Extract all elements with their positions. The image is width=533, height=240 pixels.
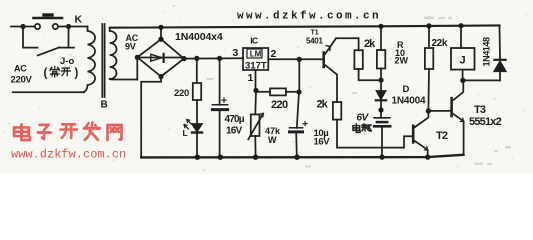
- svg-text:220: 220: [271, 99, 288, 111]
- wire: LM317 output to T1 base: [268, 58, 323, 60]
- svg-text:5551x2: 5551x2: [469, 116, 502, 128]
- transistor Q3: T3 base bar: [450, 98, 453, 116]
- wire: ground bottom rail: [141, 155, 463, 158]
- svg-text:1: 1: [248, 72, 254, 84]
- junction: 470u top: [217, 56, 222, 61]
- label 电瓶: [353, 124, 371, 132]
- junction: rail at R / R bottom node: [378, 24, 383, 83]
- T3 emitter with arrow: [453, 113, 464, 154]
- junction: node K: [66, 24, 71, 29]
- wire: T1 emitter to 2k: [336, 38, 359, 50]
- resistor R 10 2W: [377, 26, 385, 80]
- transistor Q1: T1 5401 base bar: [322, 53, 325, 67]
- label 6V: [357, 113, 370, 124]
- label AC 9V: [125, 33, 139, 52]
- label K: [75, 13, 83, 25]
- wire: bridge bottom DC- to ground: [141, 77, 161, 158]
- wire: LED to ground: [196, 133, 198, 158]
- junction: bridge bottom vertex: [158, 74, 163, 79]
- capacitor 470u 16V: [212, 58, 227, 109]
- svg-text:): ): [75, 68, 79, 80]
- svg-text:AC: AC: [14, 64, 27, 74]
- svg-text:2k: 2k: [364, 38, 376, 50]
- svg-text:16V: 16V: [226, 126, 243, 137]
- wire: secondary bottom lead: [110, 78, 138, 81]
- label 2k (emitter): [364, 38, 376, 50]
- wire: ADJ down to pot: [254, 91, 257, 115]
- watermark 电子开发网 (red): [14, 123, 121, 140]
- resistor 2k (T1 collector): [333, 102, 341, 120]
- wire: bridge top vertex to rail: [160, 27, 162, 39]
- label www.dzkfw.com.cn (top): [237, 11, 381, 23]
- switch K contacts: [35, 24, 58, 29]
- junction: rail at relay: [458, 23, 463, 28]
- svg-text:2: 2: [271, 48, 277, 60]
- label IC: [250, 36, 258, 46]
- svg-text:T2: T2: [436, 130, 448, 142]
- watermark www.dzkfw.com.cn (red): [11, 148, 126, 162]
- label 47k W: [265, 126, 281, 145]
- svg-text:1N4004: 1N4004: [392, 96, 426, 107]
- junction: relay bottom node: [460, 78, 465, 83]
- wire: 10u to ground: [295, 132, 298, 157]
- LED L: [192, 124, 202, 133]
- pin 2 label: [271, 48, 277, 60]
- wire: bridge output to LM317 pin 3: [184, 57, 243, 59]
- wire: 2k to T2 base: [337, 120, 413, 148]
- junction: pot ground: [253, 155, 258, 160]
- label 22k: [432, 38, 448, 49]
- svg-text:9V: 9V: [125, 42, 136, 52]
- wire: pot to ground: [254, 136, 256, 157]
- label 10u 16V: [314, 128, 331, 147]
- wire: AC 220V bottom lead: [13, 91, 84, 93]
- transformer B secondary winding: [110, 28, 117, 79]
- wire: 470u to ground: [219, 111, 221, 157]
- junction: bridge top vertex: [158, 25, 163, 42]
- svg-text:B: B: [101, 100, 108, 111]
- label R 10 2W: [395, 40, 409, 65]
- bridge rectifier 1N4004x4 diamond: [137, 39, 184, 76]
- junction: LED chain top: [194, 56, 199, 61]
- wire: LM317 pin1 down: [255, 70, 257, 91]
- wire: 2k to R node: [359, 69, 381, 80]
- label 470u 16V: [225, 114, 245, 137]
- label L: [183, 128, 188, 138]
- junction: rail at 22k: [426, 23, 431, 28]
- svg-text:www.dzkfw.com.cn: www.dzkfw.com.cn: [237, 11, 381, 23]
- wire: relay contact branch right: [59, 27, 74, 48]
- svg-text:J: J: [460, 55, 466, 67]
- svg-text:W: W: [268, 135, 277, 145]
- wire: output down to 10u: [297, 59, 300, 127]
- transformer B primary winding: [84, 27, 95, 93]
- svg-text:3: 3: [233, 47, 239, 59]
- wire: rail right end down to 1N4148: [499, 25, 502, 59]
- relay J coil: [451, 26, 475, 81]
- wire: node to T3 base: [428, 110, 450, 112]
- svg-text:IC: IC: [250, 36, 258, 46]
- junction: battery ground: [379, 154, 384, 159]
- junction: bridge left vertex: [135, 55, 140, 60]
- svg-text:220: 220: [174, 88, 189, 99]
- switch K plunger: [34, 15, 63, 18]
- diode 1N4148: [494, 60, 505, 81]
- scan smudges: [4, 5, 528, 171]
- label 220: [174, 88, 189, 99]
- wire: AC 220V top lead: [11, 26, 35, 28]
- svg-text:J-o: J-o: [60, 56, 74, 67]
- svg-text:16V: 16V: [314, 136, 331, 147]
- capacitor 10u 16V: [290, 122, 308, 132]
- T1 collector: [325, 65, 337, 102]
- label J-o: [60, 56, 74, 67]
- wire: DC+ top rail: [110, 25, 500, 27]
- wire: relay bottom to 1N4148 anode: [463, 79, 500, 81]
- wire: to resistor 220 (LED): [196, 58, 198, 83]
- svg-text:www.dzkfw.com.cn: www.dzkfw.com.cn: [11, 148, 126, 162]
- svg-text:1N4004x4: 1N4004x4: [175, 31, 223, 43]
- junction: ADJ node: [253, 88, 258, 93]
- label 2k (collector): [317, 98, 329, 110]
- op-amp U1: regulator IC LM317: [243, 48, 268, 71]
- junction: 220/10u node: [296, 89, 301, 94]
- svg-text:K: K: [75, 13, 83, 25]
- battery 6V: [374, 118, 390, 157]
- junction: output node: [297, 57, 302, 62]
- resistor 220 (ADJ): [270, 88, 286, 95]
- wire: bridge left vertex down to secondary: [136, 57, 138, 79]
- label T1 5401: [306, 30, 323, 46]
- transistor Q2: T2 base bar: [412, 126, 415, 143]
- label T2: [436, 130, 448, 142]
- T2 emitter with arrow: [414, 141, 428, 158]
- label 1N4004x4: [175, 31, 223, 43]
- svg-text:L: L: [183, 128, 188, 138]
- potentiometer 47k W: [248, 114, 263, 140]
- svg-text:22k: 22k: [432, 38, 448, 49]
- label 1N4148 (rotated): [482, 37, 492, 67]
- resistor 22k: [425, 26, 433, 111]
- label 220 (ADJ): [271, 99, 288, 111]
- wire: 220 to OUT vertical: [286, 91, 299, 93]
- bridge rectifier inner diode: [137, 54, 184, 62]
- diode D 1N4004: [376, 80, 386, 118]
- label AC 220V: [11, 64, 33, 86]
- junction: LED ground: [195, 155, 200, 160]
- label B: [101, 100, 108, 111]
- T3 collector: [453, 80, 464, 100]
- junction: bridge right vertex: [181, 56, 186, 61]
- label T3 5551x2: [469, 104, 502, 128]
- junction: switch branch node: [20, 24, 25, 29]
- T1 emitter with arrow (PNP): [325, 38, 336, 54]
- junction: 470u ground: [218, 155, 223, 160]
- junction: T2 emitter ground: [425, 154, 430, 159]
- wire: relay contact branch left: [23, 27, 38, 48]
- svg-text:470µ: 470µ: [225, 114, 245, 125]
- svg-text:LM: LM: [250, 50, 262, 59]
- svg-text:5401: 5401: [306, 36, 323, 45]
- svg-text:6V: 6V: [357, 113, 370, 124]
- junction: 10u ground: [294, 155, 299, 160]
- wire: ADJ to 220 resistor: [256, 91, 270, 93]
- pin 1 label: [248, 72, 254, 84]
- junction: T2 collector / T3 base node: [426, 108, 431, 113]
- LED light arrows: [184, 120, 191, 130]
- svg-text:T3: T3: [474, 104, 486, 116]
- svg-text:(: (: [44, 68, 48, 80]
- resistor 2k (T1 emitter): [354, 50, 362, 69]
- svg-text:1N4148: 1N4148: [482, 37, 492, 67]
- T2 collector: [414, 111, 428, 128]
- relay contact J-o blade: [38, 47, 60, 55]
- pin 3 label: [233, 47, 239, 59]
- transformer B core: [102, 24, 104, 97]
- wire: 220 to LED: [196, 100, 198, 124]
- svg-text:220V: 220V: [11, 74, 33, 85]
- label (常开): [44, 67, 79, 80]
- wire: switch to transformer primary: [58, 26, 88, 28]
- svg-text:2k: 2k: [317, 98, 329, 110]
- svg-text:2W: 2W: [395, 56, 409, 66]
- junction: battery top node: [378, 107, 383, 112]
- label D 1N4004: [392, 84, 426, 107]
- resistor 220 (LED series): [193, 83, 201, 100]
